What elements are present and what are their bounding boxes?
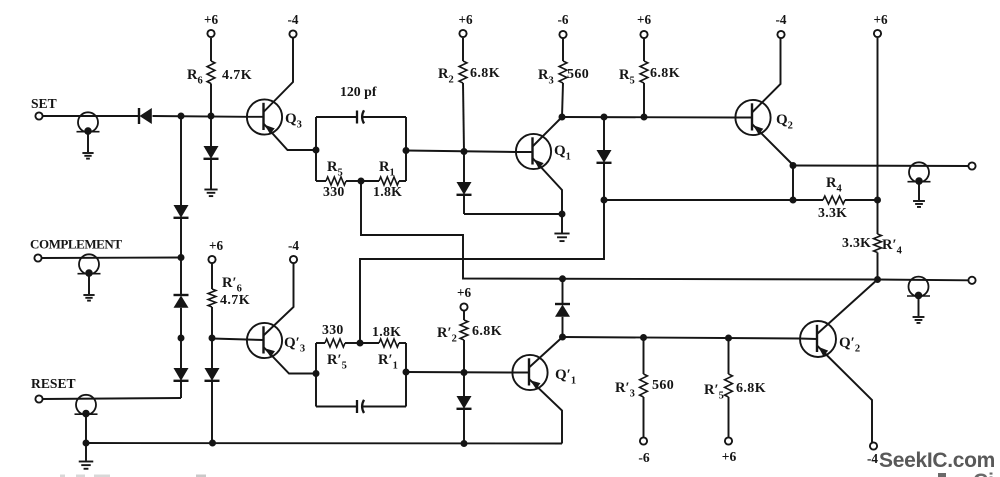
-4 supply terminal (Q'3 collector) xyxy=(288,238,299,263)
junction Q1 collector / R3 xyxy=(559,114,566,121)
wire to Q1 emitter/ground node xyxy=(464,213,562,215)
svg-text:-4: -4 xyxy=(288,12,299,27)
RESET input terminal xyxy=(31,376,76,403)
y337 rail to Q'2 base xyxy=(563,337,800,339)
svg-text:6.8K: 6.8K xyxy=(736,381,766,396)
+6 supply terminal (R5 6.8K upper) xyxy=(637,12,652,38)
lower RC box: left rail xyxy=(315,343,317,407)
wire SET input to diode xyxy=(42,115,139,117)
wire +6 down through R4 junction xyxy=(877,38,879,234)
svg-text:6.8K: 6.8K xyxy=(472,324,502,339)
COMPLEMENT input terminal xyxy=(30,237,122,262)
coax connector RESET xyxy=(75,395,98,418)
wire Q2 emitter down to R4 rail xyxy=(792,166,794,201)
junction R4 rail left xyxy=(790,197,797,204)
coax connector SET xyxy=(77,112,100,135)
wire junction to output 2 terminal xyxy=(878,279,969,282)
+6 supply terminal (R4p column) xyxy=(873,12,888,37)
resistor R'5 6.8K (lower right) xyxy=(725,338,733,438)
coax connector OUT1 xyxy=(908,162,931,185)
junction COMPLEMENT/left column xyxy=(178,254,185,261)
ground below RESET rail xyxy=(79,443,94,469)
lower RC box: right rail xyxy=(405,343,407,407)
junction R'5/R'1 (coupling) xyxy=(357,340,364,347)
bottom ground rail xyxy=(86,442,562,445)
svg-text:4.7K: 4.7K xyxy=(222,68,252,83)
resistor R'4 3.3K xyxy=(874,234,882,280)
-4 supply terminal (Q3 collector) xyxy=(288,12,299,38)
wire RC right node to Q1 base xyxy=(406,151,516,153)
-4 terminal (Q'2 emitter) xyxy=(867,442,878,466)
resistor R1 1.8K xyxy=(361,177,406,185)
svg-text:4.7K: 4.7K xyxy=(220,293,250,308)
svg-text:1.8K: 1.8K xyxy=(372,324,401,339)
diode C (down) left column to RESET xyxy=(174,338,189,398)
ground below SET coax xyxy=(82,132,93,159)
resistor R3 560 xyxy=(559,39,567,118)
svg-text:Ci: Ci xyxy=(973,470,994,477)
watermark fragment bottom xyxy=(938,473,946,477)
coax connector OUT2 xyxy=(907,277,930,300)
svg-text:+6: +6 xyxy=(457,285,472,300)
+6 supply terminal (R'2) xyxy=(457,285,472,311)
ground below output2 coax xyxy=(913,296,925,323)
junction R'3 xyxy=(640,334,647,341)
diode below R'6 to ground rail xyxy=(205,338,220,443)
left steering column: wire SET junction down xyxy=(180,116,182,205)
coupling diode column (down) x=604 xyxy=(597,117,612,200)
junction R'2/Q'1 base xyxy=(461,369,468,376)
svg-text:6.8K: 6.8K xyxy=(470,66,500,81)
cross-coupling wire B from y200 rail to lower RC junction xyxy=(360,200,604,343)
svg-text:-4: -4 xyxy=(288,238,299,253)
capacitor C1 120pf (top of RC box) xyxy=(316,110,406,123)
ground below output1 coax xyxy=(913,182,925,207)
junction between R5 and R1 xyxy=(358,178,365,185)
svg-text:SET: SET xyxy=(31,96,57,111)
junction ground rail left end xyxy=(83,440,90,447)
transistor Q'1 xyxy=(512,337,563,444)
wire RESET to left column xyxy=(42,398,181,399)
svg-text:+6: +6 xyxy=(204,12,219,27)
junction Q2 emitter node xyxy=(790,162,797,169)
transistor Q3 xyxy=(247,38,317,150)
svg-text:+6: +6 xyxy=(209,238,224,253)
junction diode column / y200 rail xyxy=(601,197,608,204)
junction SET/R6 xyxy=(208,113,215,120)
wire RC right node to Q'1 base xyxy=(406,371,512,374)
-4 supply terminal (Q2 collector) xyxy=(776,12,787,38)
output 1 terminal xyxy=(968,162,975,169)
transistor Q2 xyxy=(735,38,793,165)
-6 supply terminal (R3) xyxy=(558,12,569,38)
capacitor C'1 (bottom of lower RC box) xyxy=(316,400,406,413)
junction Q'1 collector node xyxy=(559,334,566,341)
diode A (down) left column xyxy=(174,205,189,258)
ground below COMPLEMENT coax xyxy=(83,274,94,301)
wire diode to node, junctions at x=181 and x=211 xyxy=(153,115,247,118)
node Q3 emitter / RC left xyxy=(313,147,320,154)
SET input terminal xyxy=(31,96,57,120)
y200 rail from diode column to R4 xyxy=(604,199,793,201)
svg-text:+6: +6 xyxy=(722,449,737,464)
resistor R5 330 (upper) xyxy=(316,177,361,185)
junction rail/diode column xyxy=(601,114,608,121)
diode CR1 on SET line (pointing left) xyxy=(139,108,152,124)
svg-text:RESET: RESET xyxy=(31,376,76,391)
wire Q2 emitter to output 1 xyxy=(793,165,969,168)
node Q'3 emitter / RC left xyxy=(313,370,320,377)
svg-text:3.3K: 3.3K xyxy=(818,205,847,220)
svg-text:1.8K: 1.8K xyxy=(373,184,402,199)
+6 supply terminal (R'6) xyxy=(208,238,223,263)
wire RESET coax to ground rail xyxy=(85,414,87,443)
svg-text:+6: +6 xyxy=(873,12,888,27)
resistor R5 6.8K (upper right) xyxy=(640,39,648,118)
junction Q1 emitter/ground xyxy=(559,211,566,218)
svg-text:+6: +6 xyxy=(458,12,473,27)
junction coupling diode (up) column xyxy=(559,275,566,282)
svg-text:330: 330 xyxy=(322,322,344,337)
junction R'4 / output2 / Q'2 collector xyxy=(874,276,881,283)
coax connector COMPLEMENT xyxy=(78,254,101,277)
diode below R'2 xyxy=(457,373,472,444)
+6 supply terminal (R6) xyxy=(204,12,219,37)
-6 supply terminal (R'3) xyxy=(638,437,650,465)
svg-text:SeekIC.com: SeekIC.com xyxy=(879,449,995,472)
svg-text:COMPLEMENT: COMPLEMENT xyxy=(30,237,122,252)
junction R2/Q1 base xyxy=(461,148,468,155)
svg-text:+6: +6 xyxy=(637,12,652,27)
svg-text:330: 330 xyxy=(323,184,345,199)
resistor R'1 1.8K xyxy=(360,339,406,347)
junction ground rail / diode xyxy=(209,440,216,447)
output 2 terminal xyxy=(968,277,975,284)
svg-text:-4: -4 xyxy=(776,12,787,27)
svg-text:120 pf: 120 pf xyxy=(340,84,377,99)
junction SET/left-column xyxy=(178,113,185,120)
svg-text:560: 560 xyxy=(652,378,674,393)
+6 supply terminal (R'5 lower) xyxy=(722,437,737,464)
resistor R6 4.7K xyxy=(207,38,215,116)
diode below R6 to ground xyxy=(204,116,219,189)
svg-text:3.3K: 3.3K xyxy=(842,235,871,250)
transistor Q'2 xyxy=(800,280,878,444)
resistor R'2 6.8K xyxy=(460,311,468,373)
resistor R4 3.3K xyxy=(793,196,878,204)
resistor R'5 330 (lower) xyxy=(316,339,360,347)
collector rail y=117 to Q2 base xyxy=(562,116,735,119)
node RC right / Q1 base xyxy=(403,147,410,154)
node RC right / Q'1 base xyxy=(403,369,410,376)
resistor R2 6.8K xyxy=(459,38,467,152)
junction left column / Q3p base wire xyxy=(178,335,185,342)
svg-text:-6: -6 xyxy=(558,12,569,27)
cross-coupling wire from R5/R1 junction xyxy=(361,181,878,280)
transistor Q1 xyxy=(516,117,562,214)
ground below R6 diode xyxy=(204,189,217,191)
svg-text:560: 560 xyxy=(567,67,589,82)
coupling diode (up) above Q'1 collector xyxy=(555,279,570,337)
junction R'5 (6.8K) xyxy=(725,335,732,342)
wire COMPLEMENT to left column xyxy=(41,257,181,260)
+6 supply terminal (R2) xyxy=(458,12,473,37)
diode below R2 xyxy=(457,152,472,215)
junction R4 / +6 column xyxy=(874,197,881,204)
RC box right rail xyxy=(405,117,407,181)
resistor R'6 4.7K xyxy=(208,263,216,338)
svg-text:6.8K: 6.8K xyxy=(650,66,680,81)
transistor Q'3 xyxy=(212,263,316,373)
junction rail/R5b xyxy=(641,114,648,121)
junction ground rail / R'2 diode xyxy=(461,440,468,447)
ground at Q1 emitter xyxy=(554,214,569,241)
RC box left rail xyxy=(315,117,317,181)
diode B (up) left column xyxy=(174,258,189,339)
svg-text:-4: -4 xyxy=(867,451,878,466)
junction R'6 / base wire xyxy=(209,335,216,342)
svg-text:-6: -6 xyxy=(638,450,650,465)
resistor R'3 560 xyxy=(640,338,648,438)
